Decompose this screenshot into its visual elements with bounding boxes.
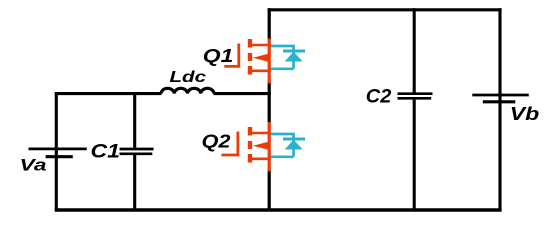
wire top rail (268, 8, 502, 11)
svg-text:Vb: Vb (510, 104, 540, 124)
transistor Q2 (MOSFET with body diode) (222, 122, 306, 172)
capacitor C1 (120, 149, 154, 154)
svg-text:Q1: Q1 (203, 46, 234, 66)
inductor Ldc (161, 88, 214, 93)
transistor Q1 (MOSFET with body diode) (224, 39, 305, 84)
wire middle rail right of inductor (214, 92, 271, 95)
svg-text:Va: Va (20, 156, 47, 175)
wire half-bridge stem upper (drain Q1) (268, 8, 271, 40)
wire half-bridge stem lower (Q2 source) (268, 170, 271, 210)
wire Vb riser (498, 8, 501, 210)
wire C1 riser upper (133, 94, 136, 148)
svg-text:Q2: Q2 (202, 131, 231, 151)
wire middle rail left of inductor (55, 92, 162, 95)
svg-text:Ldc: Ldc (170, 69, 207, 86)
battery Va (29, 149, 87, 157)
svg-text:C2: C2 (366, 86, 392, 108)
wire C2 riser upper (413, 8, 416, 92)
battery Vb (472, 95, 529, 102)
svg-text:C1: C1 (91, 141, 121, 163)
wire half-bridge stem middle (Q1 source to Q2 drain) (268, 82, 271, 123)
wire C2 riser lower (413, 100, 416, 210)
capacitor C2 (398, 94, 433, 99)
wire Va riser (55, 92, 58, 210)
wire C1 riser lower (133, 155, 136, 210)
wire bottom rail (55, 208, 502, 212)
